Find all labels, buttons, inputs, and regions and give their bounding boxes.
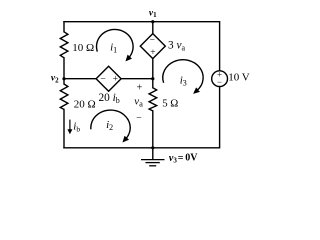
node v2 junction dot bbox=[62, 77, 65, 80]
svg-text:5 Ω: 5 Ω bbox=[162, 98, 178, 110]
svg-text:20 Ω: 20 Ω bbox=[74, 99, 96, 111]
svg-text:10: 10 bbox=[228, 72, 240, 84]
node v3 junction dot (ground node) bbox=[151, 146, 154, 149]
node v1 junction dot bbox=[151, 20, 154, 23]
resistor 5 Ohm bbox=[149, 88, 157, 111]
wire: left segment v2 to 20Ohm bbox=[63, 79, 65, 84]
wire: middle branch right (20ib to center junction) bbox=[121, 78, 153, 80]
svg-text:v2: v2 bbox=[51, 74, 59, 85]
wire: right upper segment bbox=[219, 22, 221, 71]
wire: center lower segment (5 Ohm to ground node) bbox=[152, 111, 154, 148]
ground symbol bars bbox=[141, 159, 165, 161]
svg-text:+: + bbox=[137, 82, 143, 93]
wire: left segment 10Ohm to node v2 bbox=[63, 58, 65, 79]
svg-text:3 va: 3 va bbox=[168, 39, 186, 52]
ground symbol stub bbox=[152, 148, 154, 160]
svg-text:v3: v3 bbox=[169, 153, 177, 165]
svg-text:−: − bbox=[136, 113, 142, 124]
svg-text:20 ib: 20 ib bbox=[99, 92, 120, 105]
wire: right lower segment bbox=[219, 87, 221, 148]
wire: bottom rail bbox=[64, 147, 219, 149]
wire: left lower segment bbox=[63, 109, 65, 147]
wire: middle branch left (v2 to 20ib source) bbox=[64, 78, 96, 80]
wire: top rail (node v1) bbox=[64, 21, 219, 23]
resistor 10 Ohm bbox=[60, 32, 68, 58]
wire: center mid segment (3va to junction) bbox=[152, 59, 154, 79]
mesh current arrow i3 bbox=[163, 60, 203, 91]
svg-text:−: − bbox=[150, 36, 155, 46]
svg-text:i1: i1 bbox=[110, 42, 117, 55]
wire: center top segment (v1 to 3va source) bbox=[152, 22, 154, 34]
svg-text:−: − bbox=[217, 77, 222, 87]
node junction dot middle branch to center wire bbox=[151, 77, 154, 80]
svg-text:10 Ω: 10 Ω bbox=[72, 42, 94, 54]
svg-text:−: − bbox=[100, 75, 105, 85]
svg-text:V: V bbox=[242, 72, 250, 84]
resistor 20 Ohm bbox=[60, 84, 68, 109]
svg-text:i3: i3 bbox=[180, 74, 187, 87]
wire: center segment (junction to 5 Ohm) bbox=[152, 79, 154, 88]
svg-text:va: va bbox=[134, 96, 143, 109]
mesh current arrow i1 bbox=[97, 29, 134, 57]
svg-text:v1: v1 bbox=[149, 9, 157, 20]
wire: left upper segment bbox=[63, 22, 65, 32]
svg-text:+: + bbox=[113, 75, 118, 85]
branch current arrow ib bbox=[69, 120, 71, 131]
svg-text:i2: i2 bbox=[106, 119, 113, 132]
dependent source 3va diamond bbox=[140, 34, 165, 59]
svg-text:0V: 0V bbox=[185, 153, 198, 164]
dependent source 20ib diamond bbox=[96, 66, 121, 91]
svg-text:=: = bbox=[178, 153, 184, 164]
voltage source 10V circle bbox=[212, 71, 228, 87]
svg-text:ib: ib bbox=[73, 120, 80, 133]
mesh current arrow i2 bbox=[91, 110, 130, 139]
svg-text:+: + bbox=[150, 48, 155, 58]
